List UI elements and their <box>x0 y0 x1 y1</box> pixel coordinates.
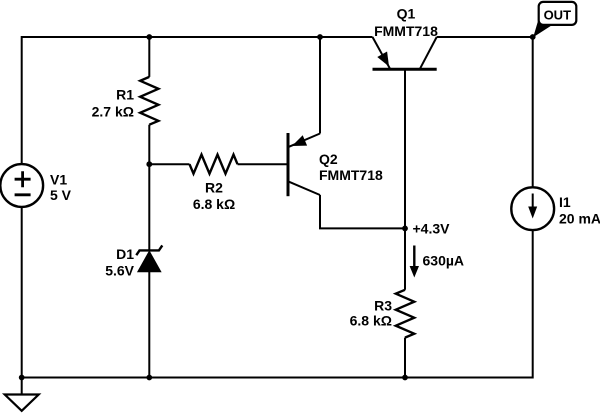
wire bottom rail (ground rail) <box>22 377 533 379</box>
junction dot (bottom rail / D1) <box>146 375 152 381</box>
wire Q2 collector to +4.3V node <box>320 195 405 228</box>
svg-text:OUT: OUT <box>544 7 572 22</box>
diode D1 (zener 5.6V) <box>136 245 162 271</box>
voltage source V1 <box>0 164 43 207</box>
svg-text:5 V: 5 V <box>50 187 72 203</box>
wire OUT node to I1 top <box>532 37 534 188</box>
svg-text:Q2: Q2 <box>319 151 338 167</box>
label Q1 name <box>374 6 438 39</box>
label R2 value <box>193 180 235 213</box>
svg-text:20 mA: 20 mA <box>559 211 600 227</box>
current source I1 <box>511 187 554 230</box>
wire top rail left (V1 to Q1 emitter) <box>22 36 373 38</box>
wire R1 bottom lead to R2 node <box>148 125 150 165</box>
wire R2 node to D1 cathode <box>148 164 150 250</box>
ground <box>5 378 39 411</box>
wire left rail lower (V1 minus to bottom rail) <box>21 207 23 378</box>
wire left rail upper (top rail to V1 plus) <box>21 36 23 164</box>
transistor Q1 (PNP FMMT718) <box>373 37 437 69</box>
svg-text:5.6V: 5.6V <box>105 262 134 278</box>
label D1 value <box>105 246 134 278</box>
svg-text:2.7 kΩ: 2.7 kΩ <box>92 104 134 120</box>
svg-text:V1: V1 <box>50 171 67 187</box>
svg-text:6.8 kΩ: 6.8 kΩ <box>193 196 235 212</box>
label R1 value <box>92 87 135 120</box>
annotation current arrow 630uA <box>410 246 419 278</box>
label Q2 name <box>319 151 383 183</box>
svg-text:FMMT718: FMMT718 <box>374 23 438 39</box>
junction dot (bottom rail / V1) <box>19 375 25 381</box>
svg-text:6.8 kΩ: 6.8 kΩ <box>350 313 392 329</box>
svg-text:Q1: Q1 <box>397 6 416 22</box>
wire I1 bottom to bottom rail <box>532 230 534 379</box>
svg-text:630µA: 630µA <box>423 253 465 269</box>
resistor R3 <box>396 290 414 338</box>
wire +4.3V node to R3 <box>404 228 406 289</box>
wire top rail right (Q1 collector to OUT node) <box>437 36 533 38</box>
transistor Q2 (PNP FMMT718) <box>288 133 320 196</box>
svg-text:FMMT718: FMMT718 <box>319 167 383 183</box>
label V1 value <box>50 171 72 203</box>
label I1 value <box>559 194 600 227</box>
wire D1 anode to bottom rail <box>148 272 150 378</box>
wire R3 bottom lead to bottom rail <box>404 338 406 378</box>
wire R2 right lead to Q2 base <box>238 163 289 165</box>
junction dot (+4.3V node) <box>402 226 408 232</box>
svg-text:D1: D1 <box>116 246 134 262</box>
junction dot (OUT node) <box>530 34 536 40</box>
node OUT flag <box>533 2 576 37</box>
label R3 value <box>350 298 393 329</box>
svg-text:I1: I1 <box>559 194 571 210</box>
junction dot (bottom rail / R3) <box>402 375 408 381</box>
junction dot (top rail / R1) <box>146 34 152 40</box>
svg-text:+4.3V: +4.3V <box>413 221 451 237</box>
junction dot (top rail / Q2 emitter) <box>317 34 323 40</box>
wire Q1 base to +4.3V node <box>404 69 406 228</box>
wire Q2 emitter to top rail <box>319 37 321 134</box>
svg-text:R1: R1 <box>116 87 134 103</box>
resistor R1 <box>140 77 158 125</box>
svg-text:R2: R2 <box>205 180 223 196</box>
wire R2 left lead <box>149 163 189 165</box>
resistor R2 <box>190 155 238 174</box>
svg-text:R3: R3 <box>374 298 392 314</box>
junction dot (R1 / R2 node) <box>146 161 152 167</box>
wire R1 top lead <box>148 37 150 77</box>
